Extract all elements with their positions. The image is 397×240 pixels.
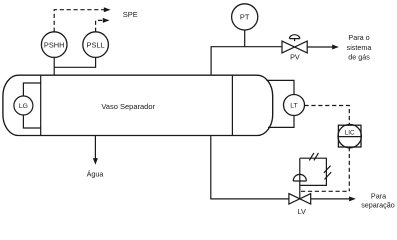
PSHH signal wire (dashed) (54, 10, 104, 32)
gas arrow head (332, 45, 339, 50)
water outlet wire (94, 135, 96, 159)
svg-text:Água: Água (87, 169, 104, 178)
PT nozzle wire (244, 30, 246, 47)
svg-text:PV: PV (290, 53, 300, 62)
vessel seam right (231, 75, 233, 135)
svg-text:LT: LT (290, 102, 297, 109)
svg-text:LIC: LIC (345, 129, 355, 136)
level gauge LG circle (14, 96, 33, 115)
svg-text:de gás: de gás (348, 53, 370, 62)
pressure switch PSLL (83, 32, 109, 58)
control valve LV body (289, 194, 311, 205)
svg-text:LG: LG (19, 103, 28, 110)
level transmitter LT (284, 95, 305, 116)
svg-text:PSLL: PSLL (87, 40, 105, 49)
control valve PV body (282, 41, 307, 53)
nozzle wire to PSHH (53, 57, 55, 75)
drain wire (211, 135, 289, 199)
vessel seam left (40, 75, 42, 135)
svg-text:PSHH: PSHH (44, 40, 65, 49)
SPE arrow head 1 (104, 7, 111, 12)
pneumatic break marks right (324, 166, 331, 180)
svg-text:separação: separação (361, 201, 395, 210)
LT signal wire (dashed) (305, 106, 350, 126)
LT bracket bottom wire (268, 116, 294, 128)
PSLL signal wire (dashed) (96, 20, 104, 31)
separation arrow head (349, 196, 356, 201)
pressure transmitter PT (232, 4, 258, 30)
controller LIC circle (338, 124, 361, 147)
LV actuator dome (293, 174, 306, 181)
svg-text:Para o: Para o (348, 33, 369, 42)
PV actuator (289, 35, 299, 41)
outlet wire to arrow (311, 198, 350, 200)
LIC output wire (dashed) (348, 147, 350, 191)
svg-text:PT: PT (240, 13, 250, 22)
level gauge LG bracket (23, 83, 40, 128)
svg-text:Vaso Separador: Vaso Separador (101, 102, 155, 111)
controller LIC divider line (338, 136, 361, 138)
svg-text:SPE: SPE (123, 10, 138, 19)
gas wire to arrow (307, 46, 333, 48)
pneumatic break marks top (309, 153, 318, 161)
manifold wire to PSLL (54, 57, 95, 67)
water arrow head (93, 158, 98, 165)
positioner signal loop wire (300, 158, 327, 185)
svg-text:Para: Para (371, 191, 386, 200)
svg-text:sistema: sistema (347, 43, 372, 52)
LIC to valve wire (dashed) (301, 190, 349, 192)
controller LIC square (338, 125, 361, 147)
svg-text:LV: LV (298, 207, 306, 216)
LV actuator stem (299, 181, 301, 199)
pressure switch PSHH (41, 32, 67, 58)
SPE arrow head 2 (103, 18, 110, 23)
vessel V-1 outline (3, 75, 273, 135)
LT bracket top wire (267, 80, 295, 94)
gas outlet wire (211, 47, 282, 75)
